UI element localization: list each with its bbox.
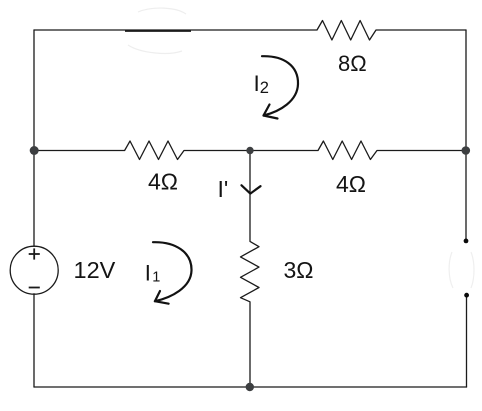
svg-text:I: I [145,261,151,286]
svg-text:2: 2 [260,79,269,97]
svg-text:4Ω: 4Ω [148,169,178,195]
svg-text:12V: 12V [74,257,116,283]
svg-text:I': I' [218,176,229,202]
svg-text:4Ω: 4Ω [336,171,366,197]
svg-text:1: 1 [152,270,160,286]
svg-text:3Ω: 3Ω [284,257,314,283]
svg-text:8Ω: 8Ω [338,51,367,76]
